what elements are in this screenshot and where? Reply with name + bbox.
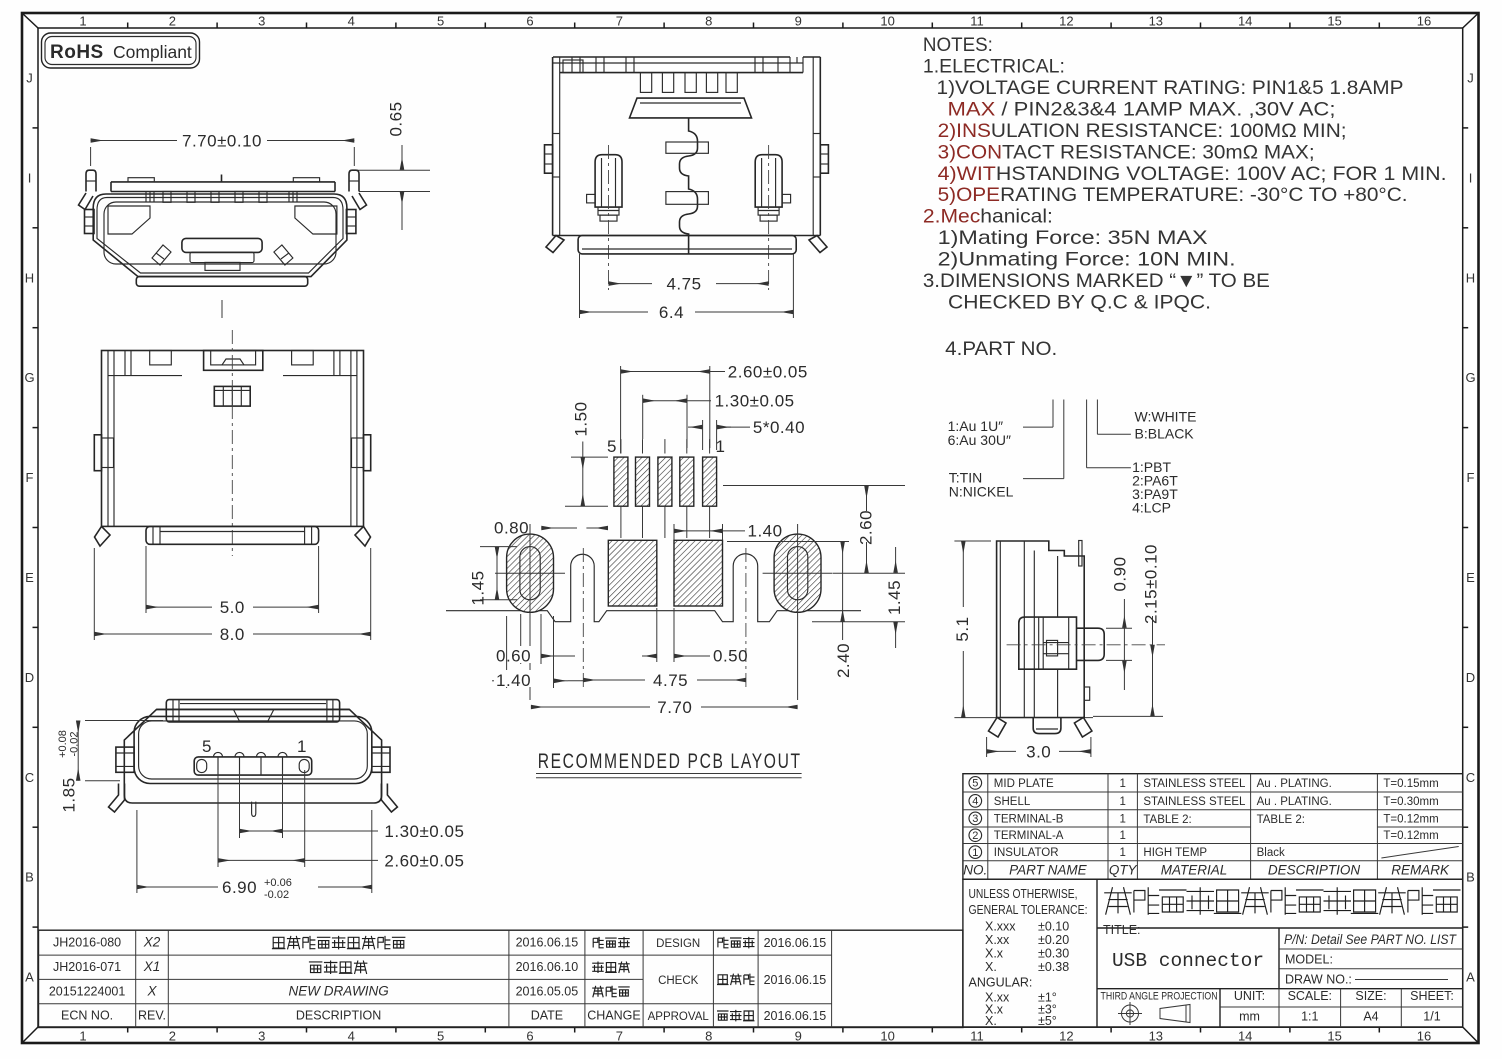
dimension 7.70&#177;0.10 overall width	[90, 147, 92, 166]
dimension 5.1 height	[954, 540, 991, 542]
svg-text:1: 1	[79, 1029, 86, 1044]
dimension 0.65 flange height	[357, 169, 430, 171]
svg-text:1/1: 1/1	[1423, 1010, 1440, 1024]
svg-text:5: 5	[607, 437, 617, 456]
svg-text:3: 3	[972, 813, 978, 825]
svg-text:2.60±0.05: 2.60±0.05	[384, 852, 464, 871]
dimension 0.90	[1106, 627, 1132, 629]
mounting lug with contact	[1019, 617, 1077, 669]
svg-text:H: H	[1466, 270, 1475, 285]
dimension 3.0 depth	[986, 737, 988, 757]
side tabs	[94, 435, 101, 471]
svg-text:1.45: 1.45	[885, 580, 904, 615]
svg-text:4.75: 4.75	[653, 671, 688, 690]
bottom base plate	[136, 277, 307, 287]
svg-text:NO.: NO.	[963, 863, 987, 878]
dimension 4.75 terminal pitch	[609, 283, 653, 285]
svg-text:2016.05.05: 2016.05.05	[516, 985, 579, 999]
svg-text:E: E	[1466, 570, 1475, 585]
svg-text:1.40: 1.40	[496, 671, 531, 690]
svg-text:MAX / PIN2&3&4 1AMP MAX. ,30V: MAX / PIN2&3&4 1AMP MAX. ,30V AC;	[948, 99, 1336, 121]
svg-text:1.40: 1.40	[748, 522, 783, 541]
dimension 1.40 shield pad width	[673, 524, 675, 540]
svg-text:DESCRIPTION: DESCRIPTION	[296, 1009, 381, 1023]
svg-text:2: 2	[169, 14, 176, 29]
svg-text:USB connector: USB connector	[1112, 950, 1264, 972]
svg-text:JH2016-071: JH2016-071	[53, 960, 121, 974]
insulator base	[578, 236, 796, 254]
svg-text:CHECKED BY Q.C & IPQC.: CHECKED BY Q.C & IPQC.	[948, 292, 1211, 314]
centerline	[231, 330, 233, 556]
svg-text:2.Mechanical:: 2.Mechanical:	[923, 206, 1053, 228]
svg-text:X.xx: X.xx	[985, 933, 1010, 947]
svg-text:I: I	[1469, 170, 1473, 185]
svg-text:16: 16	[1417, 14, 1431, 29]
svg-text:20151224001: 20151224001	[49, 985, 126, 999]
svg-text:6.4: 6.4	[659, 303, 684, 322]
svg-text:TERMINAL-B: TERMINAL-B	[994, 813, 1064, 825]
svg-text:6: 6	[526, 1029, 533, 1044]
svg-text:PART NAME: PART NAME	[1009, 863, 1088, 878]
dimension 2.60&#177;0.05	[620, 366, 622, 454]
svg-text:4: 4	[348, 14, 355, 29]
svg-text:TERMINAL-A: TERMINAL-A	[994, 830, 1064, 842]
svg-text:QTY: QTY	[1109, 863, 1138, 878]
cavity opening	[134, 716, 372, 783]
svg-text:±0.10: ±0.10	[1038, 920, 1069, 934]
svg-text:9: 9	[795, 14, 802, 29]
svg-text:TABLE 2:: TABLE 2:	[1143, 814, 1191, 826]
svg-text:B:BLACK: B:BLACK	[1135, 426, 1195, 442]
svg-text:2016.06.15: 2016.06.15	[764, 973, 827, 987]
svg-text:8: 8	[705, 1029, 712, 1044]
shell body outline	[93, 194, 347, 277]
svg-text:C: C	[1466, 770, 1475, 785]
svg-text:+0.08: +0.08	[57, 730, 69, 758]
svg-text:INSULATOR: INSULATOR	[994, 847, 1059, 859]
shell outline	[124, 709, 381, 803]
svg-text:0.65: 0.65	[386, 101, 405, 136]
five hatched pin pads	[614, 457, 628, 506]
svg-text:T=0.15mm: T=0.15mm	[1383, 778, 1438, 790]
svg-text:A: A	[1466, 970, 1475, 985]
dimension 2.60 vertical	[866, 486, 868, 545]
svg-text:11: 11	[970, 14, 984, 29]
svg-text:6:Au 30U″: 6:Au 30U″	[948, 432, 1011, 448]
svg-text:5*0.40: 5*0.40	[753, 418, 805, 437]
revision history table	[39, 930, 963, 1027]
svg-text:2016.06.15: 2016.06.15	[764, 1009, 827, 1023]
svg-text:3)CONTACT RESISTANCE: 30mΩ MAX: 3)CONTACT RESISTANCE: 30mΩ MAX;	[938, 142, 1315, 164]
svg-text:APPROVAL: APPROVAL	[648, 1011, 710, 1023]
dimensions 0.60 and 1.40 hole/pad width	[520, 614, 522, 664]
svg-text:SCALE:: SCALE:	[1288, 989, 1332, 1003]
svg-text:+0.06: +0.06	[264, 877, 292, 889]
svg-text:STAINLESS STEEL: STAINLESS STEEL	[1143, 778, 1246, 790]
svg-text:DATE: DATE	[531, 1009, 563, 1023]
dimension 6.4 base width	[579, 254, 581, 318]
svg-text:2)Unmating Force: 10N MIN.: 2)Unmating Force: 10N MIN.	[938, 249, 1236, 271]
svg-text:1: 1	[972, 847, 978, 859]
svg-text:11: 11	[970, 1029, 984, 1044]
contact tongue	[182, 238, 262, 252]
svg-text:J: J	[1467, 71, 1474, 86]
svg-text:5: 5	[437, 14, 444, 29]
svg-text:10: 10	[880, 14, 894, 29]
svg-text:SHELL: SHELL	[994, 796, 1031, 808]
svg-text:6: 6	[526, 14, 533, 29]
svg-text:JH2016-080: JH2016-080	[53, 936, 121, 950]
svg-text:15: 15	[1327, 14, 1341, 29]
svg-text:6.90: 6.90	[222, 878, 257, 897]
svg-text:10: 10	[880, 1029, 894, 1044]
svg-text:ECN NO.: ECN NO.	[61, 1009, 113, 1023]
svg-text:2.60: 2.60	[856, 510, 875, 545]
svg-text:5: 5	[972, 778, 978, 790]
svg-text:1: 1	[1119, 796, 1125, 808]
svg-text:NOTES:: NOTES:	[923, 34, 993, 56]
solder legs	[989, 718, 1007, 738]
svg-text:J: J	[26, 71, 33, 86]
latch springs	[152, 245, 171, 265]
svg-text:MATERIAL: MATERIAL	[1161, 863, 1228, 878]
svg-text:GENERAL TOLERANCE:: GENERAL TOLERANCE:	[969, 903, 1088, 917]
svg-text:1.ELECTRICAL:: 1.ELECTRICAL:	[923, 56, 1065, 78]
svg-text:5: 5	[202, 737, 212, 756]
svg-text:Black: Black	[1257, 847, 1285, 859]
svg-text:13: 13	[1149, 14, 1163, 29]
svg-text:SIZE:: SIZE:	[1355, 989, 1386, 1003]
svg-text:4.75: 4.75	[666, 275, 701, 294]
svg-text:2: 2	[972, 830, 978, 842]
svg-text:1.30±0.05: 1.30±0.05	[384, 822, 464, 841]
svg-text:12: 12	[1059, 14, 1073, 29]
square shield pads	[608, 540, 657, 606]
svg-text:X.: X.	[985, 1014, 997, 1028]
contact tongue with pins 5..1	[194, 757, 312, 775]
svg-text:B: B	[1466, 870, 1475, 885]
svg-text:NEW DRAWING: NEW DRAWING	[288, 984, 388, 999]
parts list table	[963, 774, 1463, 880]
svg-text:5: 5	[437, 1029, 444, 1044]
svg-text:X.: X.	[985, 960, 997, 974]
svg-text:A4: A4	[1363, 1010, 1378, 1024]
svg-text:H: H	[25, 270, 34, 285]
svg-text:16: 16	[1417, 1029, 1431, 1044]
svg-text:4: 4	[348, 1029, 355, 1044]
dimension 1.30&#177;0.05	[642, 395, 644, 439]
svg-text:1: 1	[1119, 847, 1125, 859]
svg-text:F: F	[26, 470, 34, 485]
svg-text:MODEL:: MODEL:	[1285, 953, 1333, 967]
svg-text:-0.02: -0.02	[264, 889, 289, 901]
shell top outline	[102, 351, 364, 527]
svg-text:DESIGN: DESIGN	[656, 938, 700, 950]
svg-text:5)OPERATING TEMPERATURE: -30°C: 5)OPERATING TEMPERATURE: -30°C TO +80°C.	[938, 184, 1408, 206]
svg-text:7: 7	[616, 1029, 623, 1044]
svg-text:DRAW NO.:: DRAW NO.:	[1285, 973, 1352, 987]
svg-text:1.30±0.05: 1.30±0.05	[715, 392, 795, 411]
dimension 2.15&#177;0.10	[1093, 715, 1163, 717]
svg-text:D: D	[1466, 670, 1475, 685]
svg-text:8.0: 8.0	[220, 625, 245, 644]
svg-text:3: 3	[258, 1029, 265, 1044]
svg-text:7.70±0.10: 7.70±0.10	[182, 132, 262, 151]
RoHS Compliant label box	[42, 33, 200, 68]
svg-text:DESCRIPTION: DESCRIPTION	[1268, 863, 1361, 878]
slot centerlines	[582, 548, 584, 688]
dimension 5*0.40 pad width	[688, 426, 702, 428]
svg-text:2.60±0.05: 2.60±0.05	[728, 363, 808, 382]
svg-text:±5°: ±5°	[1038, 1014, 1057, 1028]
svg-text:G: G	[1465, 370, 1475, 385]
shell seam teeth band	[553, 56, 790, 58]
svg-text:±0.38: ±0.38	[1038, 960, 1069, 974]
svg-text:4: 4	[972, 796, 978, 808]
svg-text:1:1: 1:1	[1301, 1010, 1318, 1024]
svg-text:X2: X2	[143, 935, 161, 950]
svg-text:D: D	[25, 670, 34, 685]
svg-text:1: 1	[297, 737, 307, 756]
svg-text:±0.30: ±0.30	[1038, 947, 1069, 961]
dimension 1.45 right	[895, 547, 897, 573]
shell crimp teeth	[163, 192, 171, 203]
svg-text:C: C	[25, 770, 34, 785]
svg-text:0.60: 0.60	[496, 647, 531, 666]
side profile outline	[997, 541, 1085, 718]
svg-text:UNIT:: UNIT:	[1234, 989, 1265, 1003]
dimension 1.45 hole length	[480, 546, 517, 548]
svg-text:1: 1	[1119, 813, 1125, 825]
svg-text:2.40: 2.40	[834, 643, 853, 678]
svg-text:0.80: 0.80	[494, 519, 529, 538]
svg-text:3.0: 3.0	[1026, 742, 1051, 761]
svg-text:SHEET:: SHEET:	[1410, 989, 1454, 1003]
svg-text:0.90: 0.90	[1110, 556, 1129, 591]
svg-text:X: X	[146, 984, 157, 999]
svg-text:X.xxx: X.xxx	[985, 920, 1016, 934]
shell top flange rail	[111, 181, 335, 183]
svg-text:E: E	[25, 570, 34, 585]
svg-text:CHECK: CHECK	[658, 975, 699, 987]
dimension 2.40	[842, 542, 844, 622]
svg-text:3: 3	[258, 14, 265, 29]
svg-text:T=0.30mm: T=0.30mm	[1383, 796, 1438, 808]
svg-text:1: 1	[79, 14, 86, 29]
svg-text:REV.: REV.	[138, 1009, 166, 1023]
svg-text:2.15±0.10: 2.15±0.10	[1141, 544, 1160, 624]
dimension 4.75 slot pitch	[583, 679, 645, 681]
dimension 1.85 +0.08/-0.02	[85, 720, 163, 722]
svg-text:1)Mating Force: 35N MAX: 1)Mating Force: 35N MAX	[938, 227, 1208, 249]
dimension 5.0	[145, 546, 147, 613]
svg-text:HIGH TEMP: HIGH TEMP	[1143, 847, 1207, 859]
title block	[963, 879, 1463, 1027]
svg-text:14: 14	[1238, 1029, 1252, 1044]
dimensions 1.30 and 2.60 pin spacing	[239, 770, 241, 838]
svg-text:A: A	[25, 970, 34, 985]
svg-text:Compliant: Compliant	[113, 42, 192, 62]
receptacle cavity	[104, 202, 336, 264]
svg-text:9: 9	[795, 1029, 802, 1044]
solder ear tabs	[86, 170, 96, 191]
svg-text:Au . PLATING.: Au . PLATING.	[1257, 778, 1332, 790]
svg-text:1: 1	[1119, 830, 1125, 842]
side latch bumps	[85, 210, 95, 234]
svg-text:15: 15	[1327, 1029, 1341, 1044]
mid plate S-bend	[680, 118, 698, 254]
dimension 1.50 pad length	[571, 456, 608, 458]
svg-text:4:LCP: 4:LCP	[1132, 499, 1171, 515]
svg-text:4)WITHSTANDING VOLTAGE: 100V A: 4)WITHSTANDING VOLTAGE: 100V AC; FOR 1 M…	[938, 163, 1447, 185]
svg-text:1.45: 1.45	[468, 570, 487, 605]
svg-text:ANGULAR:: ANGULAR:	[969, 976, 1033, 990]
svg-text:UNLESS OTHERWISE,: UNLESS OTHERWISE,	[969, 887, 1078, 901]
svg-text:X.x: X.x	[985, 947, 1004, 961]
svg-text:N:NICKEL: N:NICKEL	[949, 483, 1014, 499]
svg-text:MID PLATE: MID PLATE	[994, 778, 1054, 790]
PCB edge outline with slots	[446, 554, 861, 622]
svg-text:T=0.12mm: T=0.12mm	[1383, 830, 1438, 842]
dimension 8.0	[93, 548, 95, 640]
svg-text:0.50: 0.50	[713, 647, 748, 666]
svg-text:7: 7	[616, 14, 623, 29]
svg-text:REMARK: REMARK	[1391, 863, 1450, 878]
part number code legend	[1052, 400, 1054, 428]
svg-text:2016.06.15: 2016.06.15	[516, 936, 579, 950]
svg-text:TITLE:: TITLE:	[1103, 923, 1141, 937]
svg-text:TABLE 2:: TABLE 2:	[1257, 814, 1305, 826]
svg-text:±0.20: ±0.20	[1038, 933, 1069, 947]
svg-text:I: I	[28, 170, 32, 185]
svg-text:4.PART NO.: 4.PART NO.	[945, 338, 1057, 360]
svg-text:B: B	[25, 870, 34, 885]
svg-text:1)VOLTAGE CURRENT RATING: PIN1: 1)VOLTAGE CURRENT RATING: PIN1&5 1.8AMP	[937, 77, 1404, 99]
svg-text:12: 12	[1059, 1029, 1073, 1044]
latch window	[214, 386, 250, 406]
svg-text:13: 13	[1149, 1029, 1163, 1044]
contact sections	[666, 142, 709, 153]
svg-text:G: G	[24, 370, 34, 385]
svg-text:-0.02: -0.02	[69, 731, 81, 756]
svg-text:1: 1	[1119, 778, 1125, 790]
svg-text:3.DIMENSIONS MARKED “▼” TO BE: 3.DIMENSIONS MARKED “▼” TO BE	[923, 270, 1270, 292]
svg-text:2)INSULATION RESISTANCE: 100MΩ: 2)INSULATION RESISTANCE: 100MΩ MIN;	[938, 120, 1347, 142]
svg-text:RECOMMENDED PCB LAYOUT: RECOMMENDED PCB LAYOUT	[538, 750, 802, 773]
svg-text:2: 2	[169, 1029, 176, 1044]
svg-text:7.70: 7.70	[657, 698, 692, 717]
svg-text:W:WHITE: W:WHITE	[1135, 409, 1197, 425]
svg-text:1.85: 1.85	[59, 777, 78, 812]
svg-text:STAINLESS STEEL: STAINLESS STEEL	[1143, 796, 1246, 808]
dimension 0.50 pad gap	[656, 608, 658, 662]
svg-text:8: 8	[705, 14, 712, 29]
dimension 7.70 hole pitch	[531, 706, 650, 708]
svg-text:THIRD ANGLE PROJECTION: THIRD ANGLE PROJECTION	[1101, 991, 1218, 1003]
terminal pillars	[595, 155, 622, 207]
svg-text:2016.06.15: 2016.06.15	[764, 936, 827, 950]
svg-text:mm: mm	[1239, 1010, 1260, 1024]
top plate	[630, 98, 752, 118]
svg-text:5.0: 5.0	[220, 598, 245, 617]
svg-text:F: F	[1467, 470, 1475, 485]
oval mounting hole pads	[507, 534, 554, 612]
svg-text:Au . PLATING.: Au . PLATING.	[1257, 796, 1332, 808]
svg-text:14: 14	[1238, 14, 1252, 29]
svg-text:5.1: 5.1	[953, 616, 972, 641]
rear flange	[166, 700, 339, 722]
svg-text:CHANGE: CHANGE	[587, 1009, 640, 1023]
svg-text:X1: X1	[143, 959, 161, 974]
svg-text:2016.06.10: 2016.06.10	[516, 960, 579, 974]
svg-text:RoHS: RoHS	[50, 42, 104, 63]
svg-text:T=0.12mm: T=0.12mm	[1383, 813, 1438, 825]
dimension 6.90 +0.06/-0.02	[136, 810, 138, 893]
svg-text:P/N: Detail See PART NO. LIST: P/N: Detail See PART NO. LIST	[1284, 932, 1458, 947]
svg-text:1.50: 1.50	[571, 401, 590, 436]
